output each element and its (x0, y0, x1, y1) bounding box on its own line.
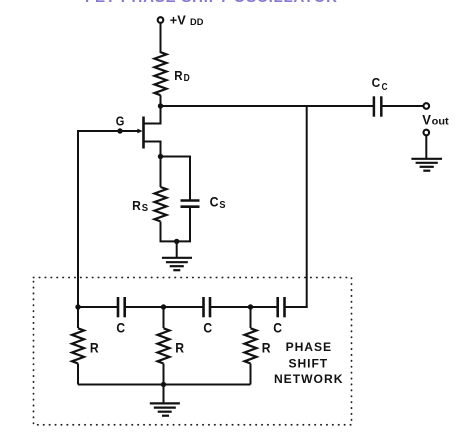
resistor R2 (158, 328, 170, 363)
svg-text:DD: DD (190, 17, 204, 27)
svg-text:D: D (184, 73, 190, 84)
node rail 2 (161, 304, 166, 309)
svg-text:C: C (210, 195, 219, 210)
label RD (174, 68, 189, 84)
capacitor C1 (118, 297, 125, 317)
svg-text:C: C (203, 320, 212, 335)
svg-text:NETWORK: NETWORK (274, 372, 343, 386)
wire R2 bottom (163, 364, 165, 385)
wire drain to Cc (161, 105, 375, 107)
wire CS to bottom (189, 207, 191, 242)
label PHASE SHIFT NETWORK (274, 340, 343, 386)
wire R3 bottom (250, 364, 252, 385)
wire top rail seg2 (125, 306, 204, 308)
svg-text:out: out (432, 116, 450, 128)
terminal +VDD (158, 17, 164, 23)
label RS (132, 198, 149, 214)
node gate (117, 128, 122, 133)
transistor Q1 JFET (78, 107, 161, 157)
wire bottom of RS CS (160, 240, 192, 242)
wire source to Cs branch (161, 156, 191, 158)
svg-text:C: C (116, 320, 125, 335)
svg-text:PHASE: PHASE (286, 340, 332, 354)
ground (source) (162, 241, 192, 270)
wire top rail seg4 (285, 306, 308, 308)
wire source to RS (160, 157, 162, 188)
label Vout (422, 113, 449, 128)
terminal Vout (424, 103, 430, 109)
svg-text:R: R (262, 339, 271, 355)
capacitor CS (181, 201, 200, 207)
phase shift network box (34, 278, 352, 425)
wire R1 top (77, 307, 79, 328)
svg-text:S: S (219, 200, 226, 211)
svg-text:R: R (174, 68, 182, 83)
label CC (372, 75, 388, 93)
svg-text:+V: +V (170, 12, 186, 27)
svg-text:R: R (132, 198, 141, 213)
svg-text:C: C (372, 75, 381, 90)
svg-text:SHIFT: SHIFT (288, 356, 328, 370)
svg-text:V: V (422, 113, 431, 128)
capacitor C2 (204, 297, 211, 317)
node drain (158, 103, 163, 108)
label CS (210, 195, 226, 212)
capacitor C3 (278, 297, 285, 317)
svg-text:G: G (116, 113, 125, 128)
svg-text:R: R (175, 339, 184, 355)
svg-text:FET PHASE SHIFT OSCILLATOR: FET PHASE SHIFT OSCILLATOR (85, 0, 337, 6)
node source ground (174, 239, 179, 244)
node bottom rail (161, 382, 166, 387)
svg-text:C: C (273, 320, 282, 335)
label +VDD (170, 12, 204, 27)
ground (output) (411, 136, 442, 171)
resistor RD (155, 52, 167, 95)
resistor RS (155, 187, 167, 221)
wire bottom rail (78, 384, 251, 386)
wire gate down to network (77, 130, 79, 307)
wire R1 bottom (77, 364, 79, 385)
node source (158, 154, 163, 159)
capacitor CC (374, 96, 381, 116)
wire VDD to RD (160, 24, 162, 54)
wire R3 top (250, 307, 252, 328)
wire top rail seg3 (210, 306, 278, 308)
resistor R1 (72, 328, 84, 363)
wire top of CS (189, 156, 191, 201)
wire RS to bottom (160, 222, 162, 243)
svg-text:C: C (382, 82, 388, 93)
wire feedback branch down (306, 106, 308, 307)
wire RD to drain node (160, 95, 162, 106)
terminal ground side (424, 130, 430, 136)
node rail 3 (248, 304, 253, 309)
node rail 1 (75, 304, 80, 309)
resistor R3 (245, 328, 257, 363)
ground (network) (150, 385, 180, 416)
wire top rail seg1 (78, 306, 118, 308)
svg-text:R: R (90, 339, 99, 355)
wire CC to Vout (381, 105, 423, 107)
wire R2 top (163, 307, 165, 328)
svg-text:S: S (142, 203, 149, 214)
